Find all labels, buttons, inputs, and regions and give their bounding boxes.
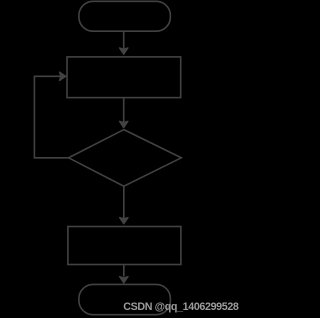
terminator end (stadium)	[79, 284, 170, 314]
wire start to process1	[123, 31, 125, 50]
arrowhead into process2 top	[120, 218, 129, 224]
wire process2 to terminator end	[123, 265, 125, 277]
arrowhead into decision top	[119, 121, 128, 127]
process box 2	[68, 227, 181, 265]
arrowhead into process1 left (loop)	[60, 72, 66, 81]
wire loop: decision left to process1 left	[34, 76, 68, 158]
decision diamond	[69, 130, 182, 187]
wire process1 to decision	[123, 98, 125, 124]
arrowhead into process1 top	[119, 48, 128, 54]
wire decision to process2	[123, 186, 125, 220]
arrowhead into terminator end top	[120, 277, 129, 283]
svg-text:CSDN @qq_1406299528: CSDN @qq_1406299528	[123, 301, 239, 313]
process box 1	[67, 57, 181, 98]
terminator start (stadium)	[79, 1, 170, 31]
